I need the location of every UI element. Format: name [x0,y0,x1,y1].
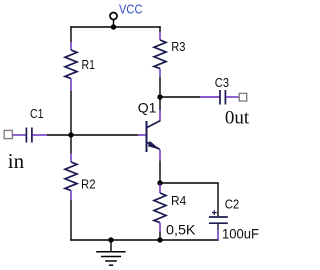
power terminal VCC circle [110,13,117,28]
wire C1 to base node [32,134,71,136]
svg-text:100uF: 100uF [222,227,259,243]
junction dot emitter node [157,180,162,185]
wire rail to R3 [159,26,161,40]
svg-text:C3: C3 [215,75,229,90]
wire collector node to Q1 collector [159,97,161,121]
resistor R1 [65,50,77,78]
wire C2 to bottom rail [217,223,219,241]
capacitor C2 polarized [209,210,228,223]
resistor R3 [154,40,166,68]
wire emitter node to C2 [160,183,219,216]
svg-text:C1: C1 [30,106,44,121]
svg-text:C2: C2 [225,197,240,212]
wire Q1 emitter to emitter node [159,150,161,184]
svg-text:R3: R3 [171,39,185,54]
wire emitter node to R4 [159,183,161,193]
svg-text:R1: R1 [82,57,96,72]
svg-text:R4: R4 [171,193,186,208]
svg-text:VCC: VCC [119,2,143,17]
wire base node to Q1 base [71,134,147,136]
wire rail to R1 [70,26,72,50]
wire C3 to out port [225,96,239,98]
port square out [239,93,247,101]
junction dot collector node [157,94,162,99]
svg-text:R2: R2 [81,176,96,191]
port square in [4,130,12,138]
capacitor C1 [26,128,32,143]
junction dot ground [108,237,113,242]
wire base node to R2 [70,135,72,162]
capacitor C3 [220,90,225,105]
wire R2 to bottom rail [70,190,72,240]
svg-text:Q1: Q1 [138,99,157,115]
svg-text:in: in [8,149,25,173]
wire port to C1 [12,134,26,136]
resistor R2 [65,162,77,190]
transistor Q1 [147,121,161,152]
wire bottom rail [70,239,218,241]
wire R3 to collector node [159,68,161,97]
svg-text:0,5K: 0,5K [166,222,196,238]
junction dot R4 bottom [157,237,162,242]
wire R1 to base node [70,78,72,135]
junction dot base node [68,132,73,137]
wire top VCC rail [70,26,160,28]
junction dot VCC rail [111,24,116,29]
wire collector node to C3 [160,96,220,98]
wire R4 to bottom rail [159,223,161,240]
resistor R4 [154,193,166,223]
svg-text:0ut: 0ut [225,107,250,128]
ground symbol [96,240,125,265]
